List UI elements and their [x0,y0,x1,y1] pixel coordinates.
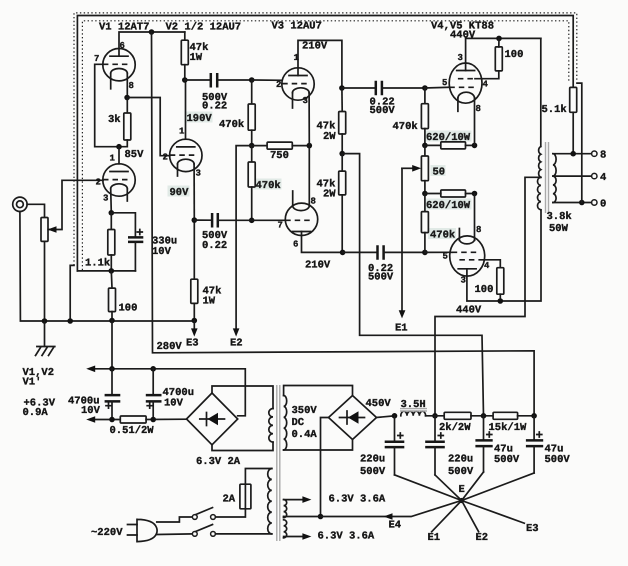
wire fuse to primary [245,469,271,485]
svg-text:1W: 1W [203,296,216,308]
svg-text:620/10W: 620/10W [426,200,471,212]
wire plug to switch bottom [157,533,192,536]
svg-text:470k: 470k [256,180,281,192]
node feedback tap junction [570,151,576,157]
svg-text:15k/1W: 15k/1W [489,422,528,434]
node V2 cathode junction [192,217,198,223]
node heater bottom cap2 junction [150,417,156,423]
svg-text:190V: 190V [187,113,213,125]
V1a cathode [111,69,128,74]
wire bridge2 negative to ground [321,418,329,517]
node 0 tap junction [579,200,585,206]
svg-text:50W: 50W [549,223,569,235]
node V3b grid junction [249,218,255,224]
svg-text:3: 3 [196,169,201,179]
ray to 47u first [462,472,484,501]
svg-text:4: 4 [600,172,606,184]
svg-text:6: 6 [293,240,298,250]
svg-text:470k: 470k [393,121,418,133]
svg-text:6: 6 [120,41,125,51]
svg-text:7: 7 [94,54,99,64]
wire switch to fuse [215,509,245,517]
V3a cathode [293,88,310,93]
plus mark [487,432,492,437]
tube V5 KT88 inverted [450,236,485,276]
V4 control grid [449,86,475,88]
svg-text:50: 50 [433,167,446,179]
OPT primary winding lower [538,177,541,210]
V5 plate [458,268,476,270]
resistor 1.1k cathode [110,213,112,230]
arrow E2 [233,328,240,336]
wire bridge1 bottom AC [212,442,273,450]
V4 cathode [458,92,475,98]
resistor 47k 2W lower [341,154,343,172]
svg-text:100: 100 [119,303,138,315]
node V4 grid junction [422,85,428,91]
svg-text:5: 5 [443,252,448,262]
wire V3b anode down [302,232,343,253]
wire V2 cathode down [193,164,195,220]
svg-text:8: 8 [129,81,134,91]
V1a plate [110,55,128,57]
svg-text:90V: 90V [170,187,190,199]
svg-text:210V: 210V [302,41,328,53]
label tint backgrounds [168,186,190,197]
svg-text:V1': V1' [23,377,42,389]
V2 heater stub [177,164,179,176]
wire jack shield to ground rail [20,212,195,322]
svg-text:3: 3 [458,53,463,63]
svg-text:470k: 470k [430,230,455,242]
arrow E4 [384,513,393,520]
wire E2 feed from bias node [236,146,252,331]
wire V5 cathode up [474,194,476,241]
transformer 6.3V 3.6A winding upper [284,500,287,518]
capacitor 330u bypass [111,213,135,238]
arrow E1 [399,310,406,318]
node 47k bottom junction [182,77,188,83]
svg-text:3.5H: 3.5H [401,399,426,411]
wire E1 from wiper [401,168,403,313]
capacitor 4700u 10V left [111,369,113,395]
node coupling cap C junction [339,85,345,91]
capacitor 47u 500V second [533,416,535,441]
wire center tap to E4 line [283,517,285,518]
V3b cathode [293,206,310,211]
resistor 470k V5 grid leak [424,194,426,212]
svg-text:2k/2W: 2k/2W [439,422,471,434]
node bias row 1 left junction [422,143,428,149]
V3a grid [282,83,307,85]
OPT secondary winding [553,154,556,203]
wire V4 anode to 440V rail [466,38,541,70]
arrow heater bus [86,366,95,373]
node 440V rail junction [496,36,502,42]
bridge2 diode [340,417,365,419]
svg-text:6.3V 2A: 6.3V 2A [196,456,241,468]
svg-text:220u: 220u [448,454,473,466]
wire V1b cathode down [110,189,113,213]
wiper arrow [48,226,57,233]
svg-text:3.8k: 3.8k [547,211,572,223]
svg-text:500V: 500V [360,466,386,478]
svg-text:2W: 2W [323,189,336,201]
V1b cathode [111,184,128,189]
svg-text:500V: 500V [494,454,520,466]
wire feedback loop from 8-ohm tap to cathode network [77,16,573,271]
node 1.1k bottom junction [109,268,115,274]
wire 0 tap to shield [577,83,582,202]
svg-text:6.3V 3.6A: 6.3V 3.6A [329,494,386,506]
power transformer core [277,385,280,541]
svg-text:2: 2 [163,153,168,163]
wire V5 grid lead [425,251,452,253]
V3a heater stub [292,93,294,108]
node choke out junction [432,413,438,419]
resistor 47k 1W plate load [181,40,188,64]
V1a heater stub [110,73,112,89]
node 450V junction [392,413,398,419]
fuse 2A [240,484,251,509]
plus mark 330u [137,230,142,235]
tube V2 half 12AU7 [170,139,202,171]
wire V3a cathode down [308,93,310,146]
bridge rectifier 6.3V heater [187,393,238,445]
node bias row 1 right junction [472,143,478,149]
choke 3.5H [401,411,426,416]
svg-text:100: 100 [475,284,494,296]
resistor 470k V4 grid leak [424,88,426,104]
bridge1 diode [200,418,225,420]
svg-text:3: 3 [103,194,108,204]
resistor 100 to rail [110,271,113,288]
svg-text:1W: 1W [190,52,203,64]
svg-text:3: 3 [461,276,466,286]
V3b grid [285,219,310,221]
node heater bottom cap1 junction [109,417,115,423]
terminal 4 [592,173,597,178]
svg-text:500V: 500V [368,272,394,284]
plus mark [537,432,542,437]
tube V1a 12AT7 upper triode [103,48,135,80]
wire V5 screen to 100 ohm [484,260,500,268]
svg-text:0: 0 [600,198,606,210]
svg-text:10V: 10V [164,398,184,410]
wire to V3a grid [252,79,283,81]
node B junction [481,413,487,419]
svg-text:1: 1 [179,127,185,137]
OPT primary center tap [435,177,541,415]
wire V5 anode to OPT [467,210,541,301]
V4 plate [457,70,475,72]
svg-text:E3: E3 [526,523,539,535]
svg-text:E1: E1 [395,323,408,335]
transformer HV winding 350V [284,386,353,396]
transformer 6.3V 2A winding [269,409,273,443]
V5 heater stub [458,229,460,241]
node heater bus cap1 junction [109,366,115,372]
svg-text:2W: 2W [323,131,336,143]
choke core [400,409,427,411]
svg-text:0.4A: 0.4A [292,429,318,441]
wire pot wiper to V1b grid [48,180,103,229]
wire plug to switch top [157,517,193,522]
resistor 470k grid leak V3a [251,80,253,104]
wire V4 screen to 100 ohm [475,71,499,79]
svg-text:750: 750 [270,150,289,162]
svg-text:450V: 450V [366,398,392,410]
plus mark [147,403,152,408]
svg-text:1: 1 [294,53,300,63]
tube V4 KT88 [449,63,482,103]
svg-text:3: 3 [303,96,308,106]
plug prongs [128,525,138,536]
V1b grid [103,179,128,181]
svg-text:DC: DC [292,417,305,429]
svg-text:4: 4 [483,80,489,90]
resistor 3k [126,98,128,114]
svg-text:E2: E2 [476,532,489,544]
svg-text:~220V: ~220V [91,527,123,539]
svg-text:10V: 10V [81,405,101,417]
wire 4 ohm tap [553,175,592,177]
node C junction [531,413,537,419]
node bias row 2 left junction [422,191,428,197]
input jack J1 [13,197,27,211]
tube V3b 12AU7 inverted [285,203,317,235]
svg-text:6.3V 3.6A: 6.3V 3.6A [318,531,375,543]
svg-text:V3 12AU7: V3 12AU7 [272,21,322,33]
svg-text:210V: 210V [305,260,331,272]
node pot ground junction [42,318,48,324]
ray E2 [462,501,479,532]
capacitor 4700u 10V right [152,369,154,395]
svg-text:1.1k: 1.1k [85,258,110,270]
ray to E4 heater CT [284,501,462,517]
wire heater bus bottom [90,419,120,421]
wire 6.3V out lower [284,537,303,538]
node rail end junction [192,318,198,324]
node shield ground junction [67,318,73,324]
svg-text:100: 100 [505,49,524,61]
mains plug [137,519,157,541]
capacitor 0.22 500V coupling D [343,251,378,253]
svg-text:500V: 500V [448,466,474,478]
wire V1a anode to top rail [119,32,185,56]
svg-text:8: 8 [476,104,481,114]
svg-text:10V: 10V [152,246,172,258]
wire V3b cathode up to pair node [308,146,310,206]
resistor 0.51/2W [120,416,146,423]
wire jack to volume pot [27,204,44,217]
wire rail to heater bus tie [111,321,113,369]
node V5 grid junction [422,250,428,256]
capacitor 220u 500V first [394,416,396,442]
wire bridge1 top AC [212,386,273,409]
resistor 750 [252,145,267,147]
OPT core [546,142,549,213]
svg-text:0.51/2W: 0.51/2W [110,425,155,437]
wire 190V node to coupling cap [185,79,211,81]
svg-text:E2: E2 [230,338,243,350]
potentiometer 50 hum balance [424,145,426,156]
wire V2 anode up [185,80,187,139]
capacitor 0.22 500V coupling B [194,219,212,221]
node bias row 2 right junction [472,191,478,197]
resistor 15k/1W [493,412,517,419]
node V3b anode junction [340,250,346,256]
svg-text:E3: E3 [186,338,199,350]
capacitor 47u 500V first [483,416,485,441]
shield border outer (dotted) [74,13,577,266]
wire V1a grid to V1b anode node [95,64,119,146]
plus mark [398,433,403,438]
bridge rectifier HV [329,396,377,440]
wire 5.1k to 8-ohm tap [572,112,574,153]
node 100 bottom rail junction [109,318,115,324]
ray to 220u first [395,475,462,501]
wire 8 ohm tap [553,153,592,155]
svg-text:0.22: 0.22 [202,240,227,252]
svg-text:8: 8 [311,197,316,207]
V3a plate [289,75,307,77]
tube V1b 12AT7 lower triode [103,164,135,196]
switch top [192,515,197,520]
ground symbol [37,321,55,347]
svg-text:V1 12AT7: V1 12AT7 [99,22,149,34]
switch bottom [192,532,197,537]
node cap out to 470k grid leak [249,77,255,83]
svg-text:8: 8 [476,225,481,235]
svg-text:1: 1 [110,154,116,164]
svg-text:85V: 85V [125,149,145,161]
wire V4 cathode down [474,98,476,146]
svg-text:5: 5 [442,78,447,88]
node cathode pair junction [307,143,313,149]
arrow E3 [191,328,198,336]
node bridge2 neg junction [318,514,324,520]
arrow heater bottom [86,416,95,423]
V3b heater stub [292,191,294,206]
svg-text:440V: 440V [456,305,482,317]
svg-text:E4: E4 [389,520,402,532]
resistor 5.1k feedback [570,87,577,112]
V1a grid [103,63,128,65]
svg-text:350V: 350V [292,405,318,417]
wire V3a anode to coupling cap node [298,40,342,88]
svg-text:4: 4 [484,261,490,271]
wire pot bottom to rail [44,241,46,321]
node feedback to 1.1k junction wire [77,270,135,272]
svg-text:440V: 440V [450,30,476,42]
node top rail junction [149,29,155,35]
plus mark [106,403,111,408]
node 85V junction [116,144,122,150]
svg-text:E1: E1 [428,532,441,544]
V4 screen grid [458,78,475,80]
ray E3 [462,501,525,524]
transformer primary winding [268,469,272,534]
resistor 620/10W upper [425,144,441,146]
svg-text:8: 8 [600,150,606,162]
capacitor 0.22 500V coupling C [342,87,376,89]
resistor 100 screen stopper [495,47,502,71]
node V1a cathode junction [124,95,130,101]
node 47k chain mid junction [339,151,345,157]
potentiometer volume pot body [41,218,48,242]
PSU B+ rail [426,415,445,417]
svg-text:220u: 220u [360,454,385,466]
V4 heater stub [457,98,459,112]
wire bridge2 positive 450V [377,416,395,418]
svg-text:500V: 500V [370,105,396,117]
wire top rail to 47k plate resistor [184,32,186,40]
svg-text:7: 7 [278,221,283,231]
resistor 620/10W lower [441,190,466,197]
svg-text:5.1k: 5.1k [542,104,567,116]
svg-text:2: 2 [276,80,281,90]
transformer 6.3V 3.6A winding lower [284,520,287,538]
svg-text:500V: 500V [545,454,571,466]
V1b plate [110,171,128,173]
V1b heater stub [126,189,128,201]
svg-text:V2 1/2 12AU7: V2 1/2 12AU7 [166,22,242,34]
star ground E [459,498,464,503]
wire heater bus top [90,369,245,416]
wire V1a cathode down [126,73,128,97]
svg-text:3k: 3k [108,114,121,126]
ray to 47u second [462,473,534,501]
terminal 0 [592,200,597,205]
svg-text:0.9A: 0.9A [23,407,49,419]
terminal 8 [592,151,597,156]
wire V4 grid lead [425,86,449,89]
resistor 470k lower grid leak [251,146,253,162]
ray E1 [432,501,462,532]
svg-text:620/10W: 620/10W [426,132,471,144]
wiper arrow 50 pot [402,167,413,169]
resistor 47k 1W V2 cathode load [193,220,195,279]
svg-text:0.22: 0.22 [202,100,227,112]
V3b plate [293,231,311,233]
plus mark [438,433,443,438]
OPT primary winding upper [539,38,541,177]
ray to 220u second [435,475,462,501]
node V1b cathode junction [109,210,115,216]
V5 cathode [459,240,474,244]
wire V1b anode up to 85V node [118,147,120,164]
V2 plate [177,146,195,148]
resistor 100 screen stopper lower [497,268,504,295]
svg-text:470k: 470k [219,119,244,131]
tube V3a 12AU7 [282,68,314,100]
resistor 2k/2W [444,412,471,419]
wire 6.3V out upper [284,499,303,501]
resistor 47k 2W upper [341,88,343,112]
shield border inner (dotted) [82,21,568,270]
svg-text:E: E [459,484,465,496]
wire 0 ohm tap [553,202,592,204]
svg-text:280V: 280V [157,341,183,353]
wire B+ feed to splitter [342,154,483,416]
V5 control grid [452,251,477,253]
V2 grid [170,154,195,156]
svg-text:2A: 2A [223,494,236,506]
capacitor 0.22 500V coupling A [211,73,217,88]
wire switch bottom to primary [215,533,271,535]
shield ground jog wire [70,265,74,321]
